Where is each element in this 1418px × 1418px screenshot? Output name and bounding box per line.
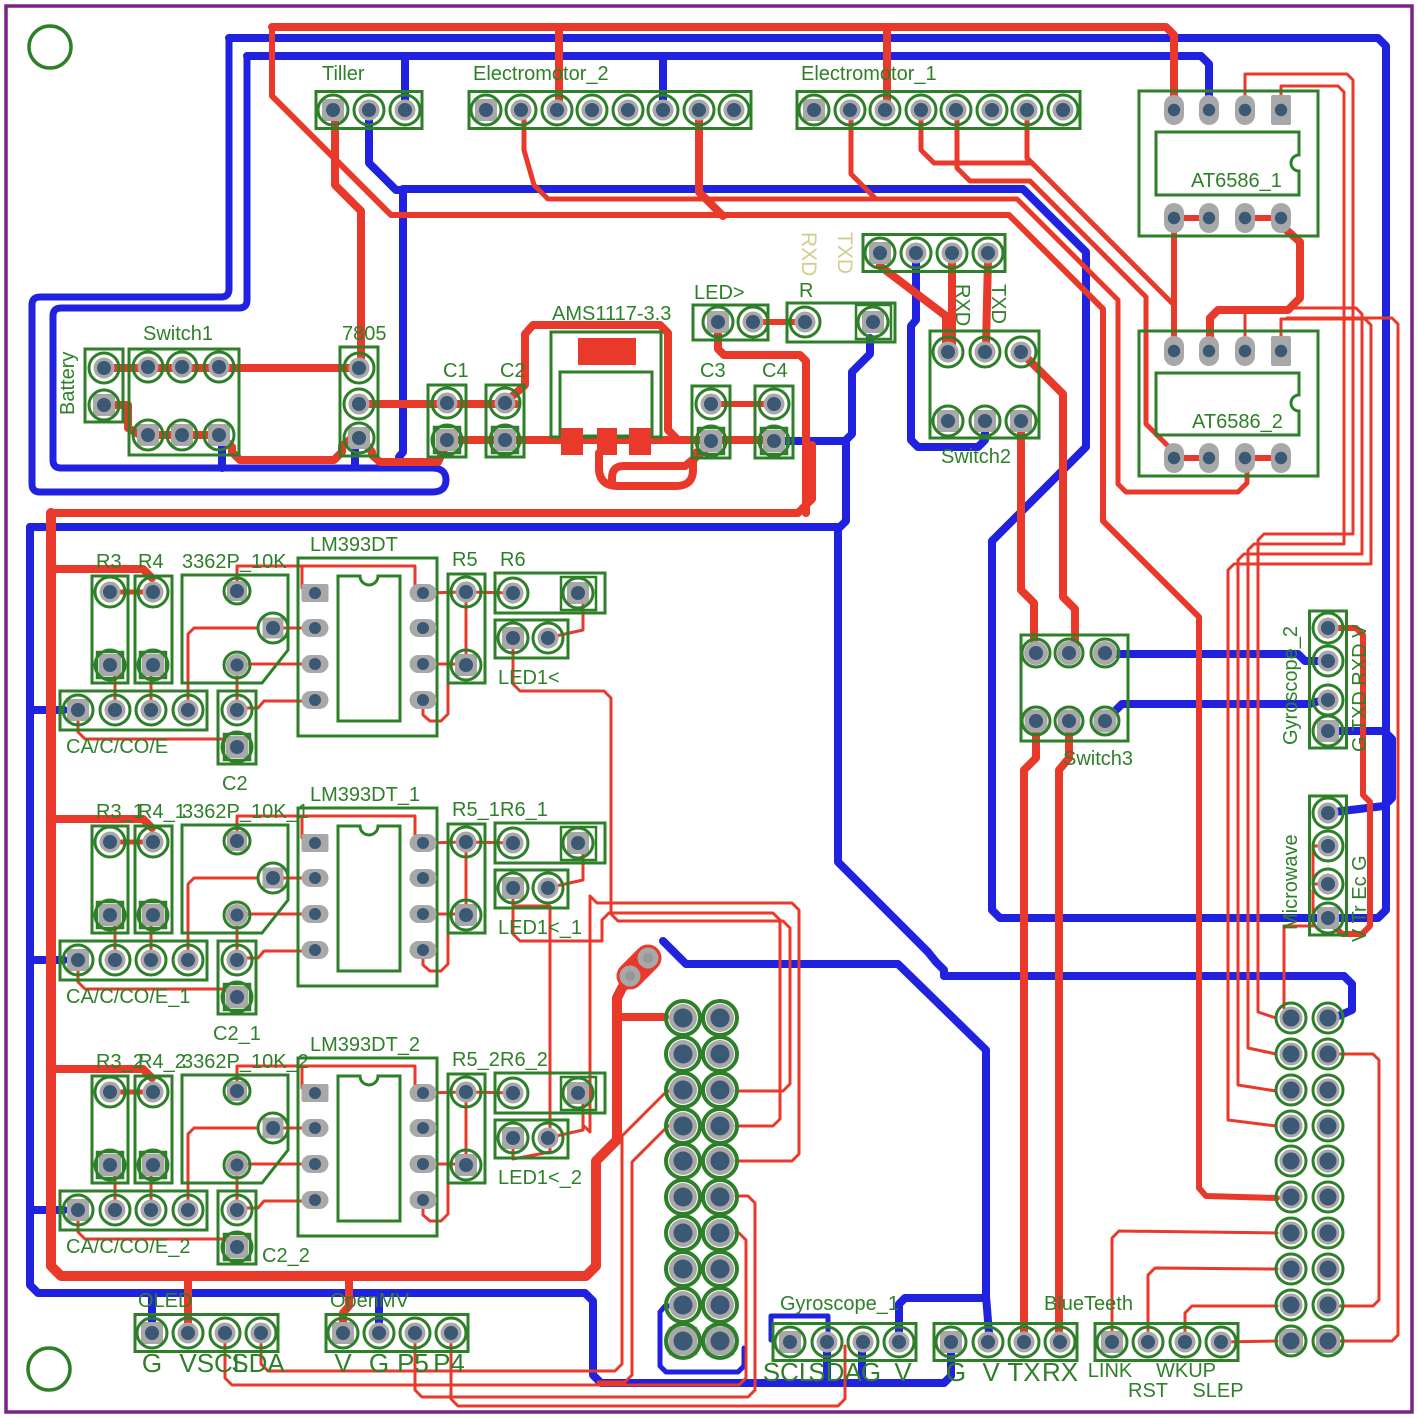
wire red trimmer bottom link (237, 913, 315, 916)
wire red ic pin1 stub (303, 1092, 315, 1095)
svg-text:AT6586_1: AT6586_1 (1191, 170, 1282, 192)
svg-text:G: G (369, 1348, 389, 1378)
wire red ic pin1 drop (301, 816, 304, 838)
svg-text:C2: C2 (222, 773, 248, 795)
resistor R5 (448, 574, 485, 683)
capacitor C2 top (486, 385, 524, 457)
wire red CA pad3 up (151, 921, 153, 958)
wire red trimmer to C2 (236, 1167, 239, 1208)
svg-text:Tiller: Tiller (322, 63, 365, 85)
capacitor C3 (692, 386, 730, 458)
wire blue left main rail to bottom (30, 527, 951, 1383)
wire red ic pin4r wrap (423, 914, 448, 971)
wire red chain AT6586_2 pad4 to header row4 (1228, 319, 1371, 1126)
trimmer 3362P_10K_2 (182, 1075, 288, 1183)
wire blue OpenMV G drop (375, 1296, 383, 1330)
connector right dual header (1280, 1007, 1303, 1030)
wire blue CA/C/CO/E stub (30, 706, 64, 714)
wire red AT6586_1 bottom bridge B (1246, 215, 1282, 221)
svg-text:R5_1: R5_1 (452, 799, 500, 821)
wire blue LM393 section rail (30, 443, 846, 527)
wire red AMS1117 hat trace (507, 325, 678, 440)
wire red Switch2 pad3 to Switch3 pad2 (1025, 356, 1075, 648)
wire red trimmer bottom link (237, 663, 315, 666)
wire red AMS1117 bottom loop inner (612, 445, 711, 484)
svg-text:RX: RX (1042, 1357, 1078, 1387)
wire red OLED V riser (184, 1276, 192, 1330)
wire red R5 to R6 (466, 842, 513, 843)
svg-text:R5: R5 (452, 549, 478, 571)
wire red ic pin1 stub (303, 592, 315, 595)
wire red C2 to ic pin4 (237, 951, 315, 958)
wire blue Switch3 to Gyroscope_2 upper (1111, 654, 1322, 661)
wire red R5 to R6 (466, 592, 513, 593)
wire red 4pin pad4 drop (986, 258, 988, 346)
svg-text:Microwave: Microwave (1280, 834, 1302, 930)
wire blue 4pin pad2 to Switch2 (911, 258, 985, 447)
capacitor C4 (755, 386, 793, 458)
wire red ic pin1 stub (303, 842, 315, 845)
wire blue CA/C/CO/E_1 stub (30, 956, 64, 964)
svg-text:TXD: TXD (987, 284, 1009, 324)
wire red LED chain link (513, 906, 550, 1159)
wire red right side chain row9 to row2 (1334, 1054, 1379, 1306)
wire red Microwave stub C (1284, 890, 1313, 1008)
wire red 7805 pad3 to C1 bottom (365, 443, 447, 462)
svg-text:V: V (894, 1357, 912, 1387)
op-amp LM393DT (298, 558, 437, 736)
svg-text:R3_2: R3_2 (96, 1051, 144, 1073)
connector Switch2 (930, 331, 1039, 438)
wire red C2 to ic pin4 (237, 701, 315, 708)
svg-text:BlueTeeth: BlueTeeth (1044, 1293, 1133, 1315)
wire red trimmer mid link (273, 627, 315, 630)
connector Microwave (1310, 796, 1347, 935)
wire red via to header row1 (617, 1013, 665, 1021)
wire red right edge chain to row10 (1287, 318, 1398, 1341)
svg-text:Switch3: Switch3 (1063, 748, 1133, 770)
wire red R5 body link (465, 847, 468, 910)
wire red CA pad4 up (188, 1128, 256, 1208)
resistor R5_1 (448, 824, 485, 933)
svg-text:V Tr Ec G: V Tr Ec G (1349, 855, 1371, 942)
svg-text:SDA: SDA (808, 1357, 862, 1387)
wire red Electromotor_1 pad3 drop (883, 27, 891, 106)
svg-text:RXD: RXD (951, 284, 973, 326)
wire blue SDA drop (823, 1345, 831, 1383)
svg-text:CA/C/CO/E_2: CA/C/CO/E_2 (66, 1236, 190, 1258)
wire red Switch1 to 7805 pad3 (219, 435, 352, 460)
wire red Microwave stub A (1313, 846, 1328, 884)
wire blue Electromotor_2 pad6 drop (659, 56, 667, 108)
svg-text:C2_1: C2_1 (213, 1023, 261, 1045)
resistor R6_1 (495, 823, 605, 863)
resistor R3_2 (92, 1076, 128, 1183)
trimmer 3362P_10K (182, 575, 288, 683)
svg-text:Electromotor_2: Electromotor_2 (473, 63, 609, 85)
wire blue C4 to R pad2 (776, 338, 870, 441)
svg-text:P4: P4 (433, 1348, 465, 1378)
wire red line4 chain to AT6586_2 (550, 199, 1247, 492)
wire red C1-C4 bottom row (447, 436, 774, 444)
svg-text:3362P_10K_2: 3362P_10K_2 (182, 1051, 309, 1073)
connector CA/C/CO/E_2 (60, 1191, 207, 1230)
wire blue 7805 pad3 hook (355, 440, 359, 466)
svg-text:RST: RST (1128, 1380, 1168, 1402)
wire red Electromotor_1 pad7 drop (1027, 112, 1032, 163)
wire red top rail (272, 27, 1174, 104)
wire red LED1_1 chain to header row4 (513, 892, 780, 1126)
svg-text:V: V (334, 1348, 352, 1378)
wire red ic out to R5 (423, 842, 466, 843)
wire red CA pad4 up (188, 878, 256, 958)
resistor R4_2 (135, 1076, 172, 1183)
wire red Battery Switch1 7805 top row (104, 364, 359, 372)
wire red trimmer top link (237, 816, 421, 843)
resistor R5_2 (448, 1074, 485, 1183)
wire red CA pad4 up (188, 628, 256, 708)
wire blue Switch1 pad3 stub (218, 438, 226, 468)
capacitor C1 (428, 385, 466, 457)
svg-text:CA/C/CO/E: CA/C/CO/E (66, 736, 168, 758)
wire red C3 C4 top (711, 401, 774, 407)
svg-text:R: R (799, 280, 813, 302)
svg-text:LED1<: LED1< (498, 667, 560, 689)
wire red Electromotor_1 pad2 drop (851, 112, 876, 199)
wire red Electromotor_2 pad3 drop (555, 27, 563, 106)
svg-text:OLED: OLED (138, 1290, 192, 1312)
IC AT6586_1 (1139, 91, 1318, 236)
svg-text:TXD: TXD (833, 232, 856, 274)
wire red ic pin3r to R5b (423, 663, 466, 666)
wire red ic pin3r to R5b (423, 913, 466, 916)
wire red R4_2 feed (51, 1069, 152, 1078)
connector Electromotor_2 (469, 92, 751, 129)
wire blue rail to right header (838, 527, 1352, 1018)
wire red chain AT6586_1 pad3 to header row1 (1245, 74, 1353, 1018)
wire red LED to rail (718, 326, 806, 513)
wire red AT6586_1 pad4b to AT6586_2 pad2 (1210, 222, 1300, 346)
wire red R4_1 feed (51, 819, 152, 828)
svg-text:R6: R6 (500, 549, 526, 571)
svg-text:P5: P5 (397, 1348, 429, 1378)
wire red bottom link to row4 (598, 1126, 678, 1382)
wire red ic pin4r wrap (423, 1164, 448, 1221)
wire red long horizontal to C4 (51, 445, 812, 513)
svg-text:LM393DT_2: LM393DT_2 (310, 1034, 420, 1056)
wire red AT6586_2 bottom bridge A (1174, 455, 1209, 461)
connector serial GVTXRX (934, 1324, 1077, 1361)
connector serial header R1 (863, 235, 1005, 272)
LED LED1&lt;_1 (495, 870, 568, 908)
svg-text:R3: R3 (96, 551, 122, 573)
svg-text:AT6586_2: AT6586_2 (1192, 411, 1283, 433)
wire red R6 to LED (551, 1097, 583, 1138)
wire red AMS1117 bottom loop outer (599, 452, 697, 486)
wire red CA pad1 loop (78, 716, 235, 746)
wire red trimmer top link (237, 1066, 421, 1093)
svg-text:SDA: SDA (231, 1348, 285, 1378)
wire blue Gyroscope_1 hook (771, 1316, 828, 1340)
svg-text:LED>: LED> (694, 282, 745, 304)
connector BlueTeeth (1095, 1324, 1238, 1361)
wire red ic pin3r to R5b (423, 1163, 466, 1166)
wire red ic pin4r wrap (423, 664, 448, 721)
resistor R4 (135, 576, 172, 683)
svg-text:AMS1117-3.3: AMS1117-3.3 (552, 303, 671, 325)
svg-text:C2_2: C2_2 (262, 1245, 310, 1267)
wire blue branch to Gyroscope_1 V (899, 1298, 986, 1338)
wire red CA pad3 up (151, 671, 153, 708)
wire red OpenMV P5 chain (415, 1336, 755, 1397)
svg-text:R3_1: R3_1 (96, 801, 144, 823)
wire red AT6586_2 bottom bridge B (1246, 455, 1282, 461)
wire red block row (110, 840, 153, 845)
wire red diagonal rail to right header (272, 27, 1277, 1198)
wire red left main rail to via (51, 513, 646, 1276)
wire red LINK to row7 (1112, 1231, 1277, 1336)
wire red RST to row8 (1148, 1268, 1277, 1336)
connector OLED (135, 1315, 278, 1352)
svg-text:Gyroscope_2: Gyroscope_2 (1280, 626, 1302, 745)
wire blue Switch1 enclosure (32, 38, 446, 492)
regulator 7805 (340, 347, 378, 456)
svg-text:V: V (179, 1348, 197, 1378)
wire blue CA/C/CO/E_2 stub (30, 1206, 64, 1214)
svg-text:G: G (946, 1357, 966, 1387)
wire red OLED SCL chain (225, 1233, 746, 1385)
wire red block row (110, 590, 153, 595)
wire blue OLED G drop (148, 1296, 156, 1330)
svg-text:Gyroscope_1: Gyroscope_1 (780, 1293, 899, 1315)
LED LED1&lt;_2 (495, 1120, 568, 1158)
wire red R5 body link (465, 1097, 468, 1160)
svg-text:TX: TX (1007, 1357, 1040, 1387)
svg-text:V: V (982, 1357, 1000, 1387)
wire red ic out to R5 (423, 592, 466, 593)
wire red Switch3 to TX (1024, 724, 1036, 1340)
connector Tiller (316, 92, 422, 129)
resistor R6_2 (495, 1073, 605, 1113)
svg-text:3362P_10K: 3362P_10K (182, 551, 287, 573)
wire red chain AT6586_1 pad4 to header row2 (1248, 86, 1344, 1054)
connector center dual header (669, 1004, 697, 1032)
wire red C2 to ic pin4 (237, 1201, 315, 1208)
capacitor C2_2 block (218, 1191, 256, 1264)
wire red Switch2 pad3b to Switch3 pad1 (1021, 424, 1034, 650)
wire red CA pad2 up (110, 921, 115, 958)
svg-text:LM393DT: LM393DT (310, 534, 398, 556)
svg-text:RXD: RXD (797, 232, 820, 276)
wire red LED1 chain to header row3 (513, 642, 790, 1091)
wire red Switch1 bottom row (148, 431, 219, 439)
wire red CA pad1 loop (78, 966, 235, 996)
connector Electromotor_1 (797, 92, 1080, 129)
resistor R (787, 303, 895, 342)
svg-text:R4: R4 (138, 551, 164, 573)
wire red SLEP to row10 (1221, 1341, 1277, 1342)
wire red trimmer bottom link (237, 1163, 315, 1166)
mounting hole top-left (29, 26, 71, 68)
wire red CA pad2 up (110, 671, 115, 708)
wire red CA pad3 up (151, 1171, 153, 1208)
connector Gyroscope_2 (1310, 611, 1347, 748)
svg-text:Switch2: Switch2 (941, 446, 1011, 468)
wire red R6 to LED (551, 597, 583, 638)
via pair (630, 958, 648, 976)
wire blue Gyroscope_1 G drop (858, 1345, 866, 1383)
op-amp LM393DT_2 (298, 1058, 437, 1236)
IC AT6586_2 (1139, 331, 1318, 476)
wire red block row (110, 1090, 153, 1095)
svg-text:R5_2: R5_2 (452, 1049, 500, 1071)
wire red header row6 link (736, 1196, 755, 1390)
wire red trimmer to C2 (236, 667, 239, 708)
wire red Electromotor_2 pad2 branch (524, 112, 548, 199)
wire red Switch3 to RX (1059, 724, 1069, 1340)
wire red Gyroscope_2 pad1 side run (1334, 628, 1370, 934)
wire red CA pad1 loop (78, 1216, 235, 1246)
LED LED1&lt; (495, 620, 568, 658)
wire red Electromotor_2 pad7 branch (699, 112, 723, 216)
svg-text:Electromotor_1: Electromotor_1 (801, 63, 937, 85)
wire red 4pin pad3 drop (948, 258, 956, 346)
wire red 4pin pad1 to Switch2 pad1 (880, 258, 946, 346)
wire blue top rail loop (229, 38, 1386, 918)
wire red trimmer top link (237, 566, 421, 593)
wire red chain AT6586_2 pad3 to header row3 (1238, 308, 1362, 1091)
connector CA/C/CO/E (60, 691, 207, 730)
wire blue header row9 hook (660, 1306, 744, 1372)
svg-text:LM393DT_1: LM393DT_1 (310, 784, 420, 806)
connector OpenMV (326, 1315, 468, 1352)
wire red 7805 pad2 to C1 C2 top (359, 400, 516, 408)
svg-text:LED1<_2: LED1<_2 (498, 1167, 582, 1189)
wire blue second rail to AT6586_1 (247, 56, 1209, 104)
connector LED> (693, 305, 768, 340)
trimmer 3362P_10K_1 (182, 825, 288, 933)
svg-text:SLEP: SLEP (1192, 1380, 1243, 1402)
wire blue Tiller pad2 branch (369, 112, 403, 466)
wire red AT6586_1 pad1b to AT6586_2 pad1t (1171, 222, 1177, 346)
wire red ic pin1 drop (301, 1066, 304, 1088)
wire red R6 to LED (551, 847, 583, 888)
wire red Electromotor_1 pad4 chain to AT6586_2 pad1 (921, 112, 1174, 346)
svg-text:G: G (861, 1357, 881, 1387)
wire red LED to R (753, 319, 805, 325)
svg-text:R6_1: R6_1 (500, 799, 548, 821)
resistor R3_1 (92, 826, 128, 933)
wire red R4 feed (51, 569, 152, 578)
wire red trimmer mid link (273, 1127, 315, 1130)
svg-text:G TXD RXD V: G TXD RXD V (1349, 624, 1371, 752)
regulator AMS1117-3.3 (551, 332, 661, 437)
wire red OpenMV P4 chain (451, 1336, 845, 1406)
wire red ic pin1 drop (301, 566, 304, 588)
wire red OLED SDA chain (261, 1091, 676, 1371)
connector Gyroscope_1 (773, 1324, 916, 1361)
svg-text:C2: C2 (500, 360, 526, 382)
wire blue Switch3 to Gyroscope_2 lower (1110, 700, 1322, 716)
capacitor C2_1 block (218, 941, 256, 1014)
wire red LED1_2 chain to header row5 (583, 896, 799, 1161)
svg-text:G: G (142, 1348, 162, 1378)
wire red Battery pad2 to Switch1 (104, 405, 148, 435)
wire blue via branch to V pad (663, 941, 989, 1333)
svg-text:C4: C4 (762, 360, 788, 382)
svg-text:Switch1: Switch1 (143, 323, 213, 345)
svg-text:OpenMV: OpenMV (330, 1290, 410, 1312)
svg-text:C1: C1 (443, 360, 469, 382)
wire red Electromotor_1 pad5 chain to AT6586_2 pad1b (957, 112, 1174, 452)
connector Battery (85, 349, 123, 422)
svg-text:CA/C/CO/E_1: CA/C/CO/E_1 (66, 986, 190, 1008)
resistor R4_1 (135, 826, 172, 933)
wire blue Tiller pad3 drop (401, 56, 409, 108)
wire red Tiller pad1 to 7805 (335, 112, 361, 364)
wire red R5 body link (465, 597, 468, 660)
wire red AT6586_1 bottom bridge A (1174, 215, 1209, 221)
wire blue Gyroscope_2 to Microwave (1334, 731, 1392, 812)
svg-text:WKUP: WKUP (1156, 1360, 1216, 1382)
svg-text:R4_1: R4_1 (138, 801, 186, 823)
wire red WKUP to row9 (1185, 1306, 1277, 1336)
svg-text:R6_2: R6_2 (500, 1049, 548, 1071)
resistor R6 (495, 573, 605, 613)
connector Switch1 (129, 349, 239, 455)
svg-text:R4_2: R4_2 (138, 1051, 186, 1073)
svg-text:C3: C3 (700, 360, 726, 382)
svg-text:7805: 7805 (342, 323, 387, 345)
svg-text:Battery: Battery (57, 352, 79, 415)
wire red trimmer to C2 (236, 917, 239, 958)
wire red ic out to R5 (423, 1092, 466, 1093)
connector Switch3 (1021, 635, 1128, 741)
wire red R5 to R6 (466, 1092, 513, 1093)
svg-text:LINK: LINK (1088, 1360, 1133, 1382)
resistor R3 (92, 576, 128, 683)
svg-text:3362P_10K_1: 3362P_10K_1 (182, 801, 309, 823)
op-amp LM393DT_1 (298, 808, 437, 986)
mounting hole bottom-left (28, 1348, 70, 1390)
svg-text:LED1<_1: LED1<_1 (498, 917, 582, 939)
wire red trimmer mid link (273, 877, 315, 880)
connector CA/C/CO/E_1 (60, 941, 207, 980)
capacitor C2 block (218, 691, 256, 764)
wire red OpenMV V riser (343, 1276, 349, 1330)
svg-text:SCL: SCL (763, 1357, 814, 1387)
wire red CA pad2 up (110, 1171, 115, 1208)
